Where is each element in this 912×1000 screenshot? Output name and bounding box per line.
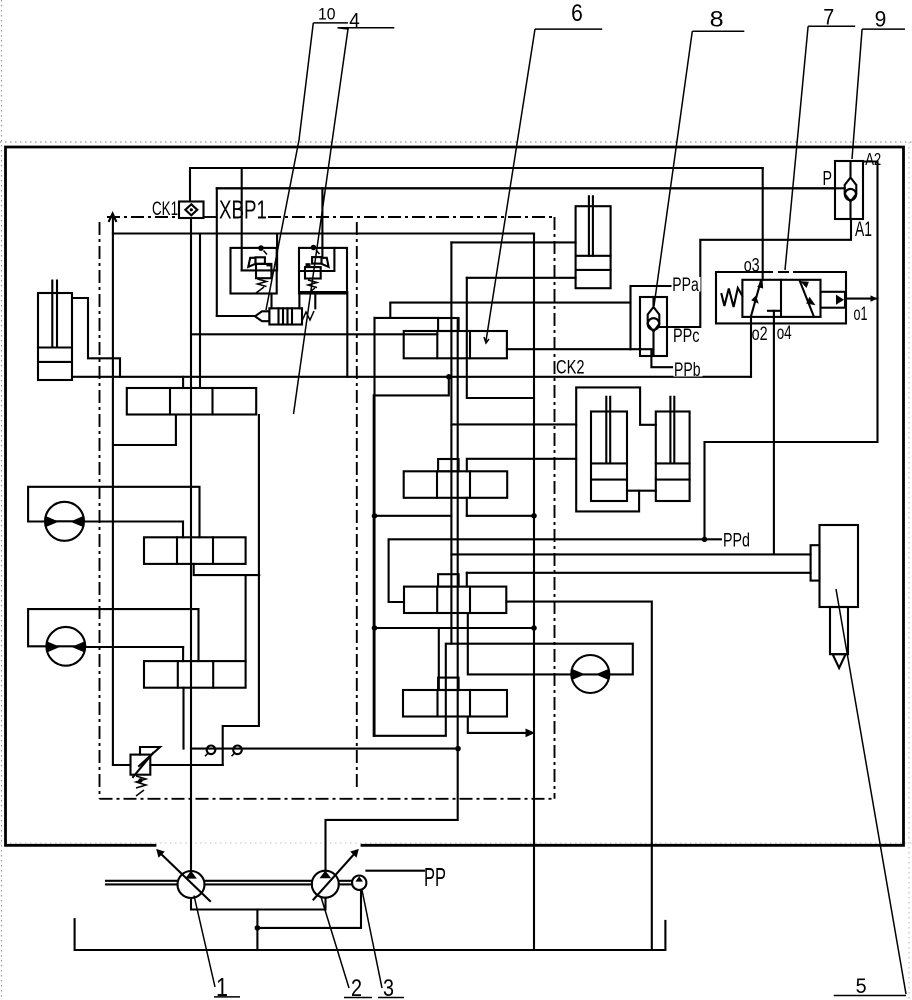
valve V7 tank wire with arrow: [468, 717, 528, 733]
valve V6 pilot cap: [438, 574, 459, 586]
page dotted border right: [908, 142, 910, 1000]
svg-text:o2: o2: [752, 323, 768, 345]
svg-text:o4: o4: [777, 322, 792, 344]
leader 9: [852, 6, 905, 159]
pilot wire to V4 cap: [375, 317, 439, 319]
valve V3 inlet vertical: [182, 647, 184, 661]
o2 branch wire down-left: [374, 377, 449, 736]
long return line o2 to cylinder C1: [72, 376, 751, 378]
wire o4 to sensor line: [773, 311, 775, 555]
junction V5 wire left: [372, 513, 378, 519]
pump 3 gear: [339, 876, 367, 890]
wire o1 to A2 line: [846, 298, 878, 300]
hydraulic motor M3: [571, 655, 609, 693]
leader 4: [294, 10, 395, 414]
valve V7 pilot cap: [438, 678, 459, 690]
cylinder C1 rod-side port wire: [72, 298, 120, 377]
tank: [75, 919, 666, 950]
leader 1: [194, 896, 240, 1000]
cylinder pair enclosure: [576, 387, 656, 511]
valve V5 bottom wire left: [375, 515, 452, 517]
page dotted border bottom: [0, 842, 912, 844]
cylinder C2 top middle: [576, 196, 611, 288]
wire into V7: [438, 628, 440, 690]
pilot relief valve box left: [231, 248, 277, 294]
junction return right: [531, 625, 537, 631]
valve block V1: [127, 388, 256, 415]
valve block V7: [403, 690, 507, 717]
wire PP: [366, 870, 424, 872]
wire P to check valve 9: [217, 187, 845, 189]
hydraulic motor M1: [45, 502, 84, 541]
leader 2: [321, 897, 372, 1000]
junction PPd: [702, 537, 708, 543]
svg-text:o1: o1: [854, 303, 868, 325]
CK1 check box on boundary: [179, 202, 204, 219]
cylinder C3: [591, 397, 627, 501]
middle return wire: [375, 627, 535, 629]
pressure sensor 5: [811, 525, 858, 668]
relief valve 1 pilot dot: [258, 245, 264, 251]
valve V5 top wire to cylinder pair: [467, 459, 576, 472]
cylinder C2 rod-side wire: [451, 241, 575, 243]
drain to tank vertical: [256, 910, 258, 951]
relief valve 2 inner frame: [299, 248, 334, 271]
valve V3 bottom wire: [182, 688, 184, 749]
svg-text:A2: A2: [865, 149, 881, 169]
label PPb: [674, 360, 703, 381]
svg-text:PPd: PPd: [723, 530, 750, 551]
svg-text:PP: PP: [424, 862, 446, 892]
pilot drain line: [191, 333, 437, 335]
bottom relief valve: [131, 747, 161, 796]
junction pump2 supply: [455, 746, 461, 752]
svg-text:PPb: PPb: [674, 360, 701, 381]
valve block V3: [144, 661, 246, 688]
svg-text:6: 6: [571, 0, 583, 27]
dash-dot corner arrow mark: [109, 214, 116, 222]
P supply line / XBP1 box top edge: [217, 187, 835, 189]
middle column bus line A: [450, 242, 452, 643]
valve V1 left port wire: [113, 415, 176, 446]
valve V5 pilot cap: [438, 459, 459, 471]
valve V4 pilot cap: [438, 318, 459, 331]
cylinder C4: [656, 397, 690, 501]
svg-text:CK2: CK2: [556, 357, 585, 379]
main enclosure rectangle: [6, 147, 904, 845]
page dotted border top: [0, 141, 912, 143]
motor M3 return loop: [375, 644, 633, 736]
pilot pump supply wire with test points: [191, 748, 458, 750]
valve V2 inlet vertical: [182, 522, 184, 538]
valve V4 outlet to check valve 8: [507, 348, 631, 350]
svg-text:PPc: PPc: [673, 326, 700, 347]
valve V6 outlet to tank: [506, 602, 652, 950]
valve block V6: [404, 587, 506, 613]
junction drain: [255, 925, 261, 931]
middle column bus line B: [326, 320, 458, 871]
relief valve 1 inner frame: [242, 234, 277, 271]
pilot line CK1 down to pump 1: [190, 218, 192, 871]
relief valve 2 element: [305, 257, 329, 294]
wire A2: [705, 162, 878, 540]
pump 2 variable displacement: [205, 849, 359, 900]
PPd sensing line: [389, 539, 721, 602]
relief valve 1 element: [248, 257, 271, 293]
inner pilot supply top edge (CK1 to o3): [190, 168, 763, 202]
svg-text:o3: o3: [744, 254, 760, 276]
motor M2 left loop wire: [28, 609, 198, 661]
valve V6 top wire: [466, 573, 468, 587]
wire PPc to A1: [659, 219, 851, 327]
pump drain wires: [191, 898, 326, 910]
dash-dot boundary CK2 right vertical: [554, 217, 556, 799]
svg-text:4: 4: [349, 10, 360, 33]
directional valve 7 outer box: [716, 272, 846, 323]
wire between cylinder bottoms: [627, 490, 656, 492]
leader 6: [484, 0, 602, 343]
junction return left: [372, 625, 378, 631]
valve block V5: [404, 471, 508, 498]
junction V5 wire right: [531, 513, 537, 519]
motor M1 right wire: [84, 520, 183, 522]
leader 8: [654, 6, 744, 306]
page dotted border left: [1, 0, 3, 1000]
hydraulic motor M2: [46, 627, 85, 666]
leader 7: [785, 4, 855, 270]
valve V6 bottom wire to motor M3: [468, 613, 572, 674]
pilot check valve 9: [835, 161, 863, 219]
solenoid valve tank wire: [299, 292, 347, 377]
pressure sensor line 2: [467, 572, 811, 574]
solenoid pilot valve 10: [255, 308, 314, 324]
wire o2: [750, 317, 752, 377]
svg-text:5: 5: [856, 975, 867, 998]
cylinder C1 top-left: [38, 281, 72, 381]
leader 5: [834, 589, 906, 998]
directional valve 7 spring: [722, 288, 743, 307]
check valve 8 body: [640, 297, 667, 356]
relief valve 2 inlet wire: [321, 188, 323, 258]
wire o3 vertical: [762, 168, 764, 280]
svg-text:8: 8: [710, 6, 724, 31]
valve V2 bottom wire: [194, 564, 260, 575]
dash-dot boundary bottom horizontal: [100, 798, 555, 800]
wire rod-side cylinder pair: [451, 423, 576, 425]
svg-text:XBP1: XBP1: [219, 195, 267, 225]
svg-text:10: 10: [318, 4, 336, 23]
solenoid valve inlet stub: [217, 315, 255, 317]
relief valve outlet wire: [150, 764, 222, 766]
dash-dot boundary middle vertical: [356, 222, 358, 788]
valve V1 inlet vertical: [182, 377, 184, 388]
relief valve 2 pilot dot: [311, 245, 317, 251]
main tank return vertical: [533, 234, 535, 950]
valve block V4: [404, 331, 507, 358]
valve V5 bottom wire right: [467, 515, 534, 517]
pressure sensor line 1: [451, 553, 810, 555]
feed wire bus to valve V1: [199, 234, 201, 389]
motor M1 left loop wire: [28, 487, 199, 538]
motor M2 right wire: [85, 646, 183, 648]
pump3 drain wire: [257, 890, 361, 928]
svg-text:9: 9: [875, 6, 887, 31]
supply bus from boundary mark: [112, 217, 114, 765]
relief valve 2 drain: [314, 294, 316, 308]
svg-text:2: 2: [351, 975, 362, 1000]
leader 3: [362, 890, 404, 1000]
svg-text:P: P: [823, 167, 833, 190]
svg-text:PPa: PPa: [672, 275, 699, 296]
junction o2 branch: [446, 374, 452, 380]
svg-text:CK1: CK1: [152, 199, 178, 220]
valve block V2: [144, 537, 246, 564]
pilot wire upper branch: [390, 303, 630, 318]
pilot relief valve box right: [299, 248, 347, 294]
leader 10: [266, 4, 348, 310]
svg-text:1: 1: [216, 972, 228, 1000]
XBP1 box left edge: [216, 188, 218, 316]
dash-dot boundary CK1 top horizontal: [107, 216, 179, 218]
valve V1 right port wire: [223, 415, 259, 765]
horizontal supply bus to tank line: [113, 232, 534, 234]
check valve 8 frame: [631, 286, 672, 349]
relief valve inlet wire: [113, 764, 131, 766]
directional valve 7 body: [742, 280, 820, 317]
relief valve 1 drain: [270, 294, 272, 309]
wire to valve V3 inlet: [245, 575, 247, 661]
pilot return vertical: [373, 318, 375, 736]
test coupling 1: [205, 746, 215, 757]
svg-text:A1: A1: [855, 218, 872, 241]
cylinder C2 piston-side wire: [467, 278, 534, 398]
test coupling 2: [232, 746, 242, 757]
wire C2 to bus: [467, 277, 576, 279]
label PPd: [722, 530, 751, 551]
pump 1 variable displacement: [106, 849, 210, 901]
label PPa: [672, 275, 701, 296]
valve V5 bottom port stub: [466, 498, 468, 516]
relief valve 1 inlet wire: [241, 168, 243, 270]
svg-text:3: 3: [383, 975, 394, 1000]
dash-dot boundary CK1 left vertical: [99, 222, 101, 799]
directional valve 7 actuator: [821, 292, 846, 308]
label PPc: [673, 326, 702, 347]
svg-text:7: 7: [823, 4, 834, 29]
check valve 8 PPb stub: [631, 349, 673, 367]
